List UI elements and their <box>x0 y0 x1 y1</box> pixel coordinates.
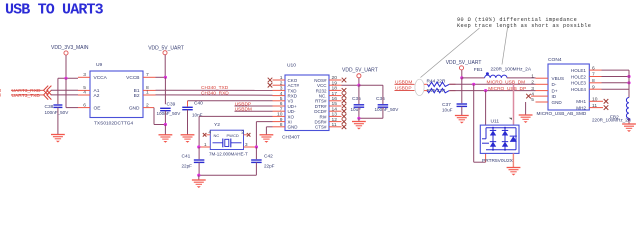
capacitor C36 <box>375 85 400 118</box>
svg-text:10: 10 <box>592 97 598 103</box>
svg-text:Keep trace length as short as: Keep trace length as short as possible <box>457 23 591 29</box>
svg-text:2: 2 <box>146 102 149 108</box>
svg-text:MICRO_USB_DP: MICRO_USB_DP <box>488 86 526 92</box>
U9 pin 4 <box>78 90 90 96</box>
svg-text:Y2: Y2 <box>214 122 220 128</box>
svg-text:3: 3 <box>245 142 248 147</box>
svg-text:C40: C40 <box>194 100 203 106</box>
ground crystal <box>192 175 206 188</box>
svg-text:22pF: 22pF <box>264 163 275 168</box>
wire C37 branch <box>461 78 463 103</box>
svg-text:7: 7 <box>146 72 149 78</box>
svg-text:5: 5 <box>531 97 534 103</box>
connector CON4 box <box>537 57 590 116</box>
svg-text:19: 19 <box>332 80 338 86</box>
svg-text:NC: NC <box>214 133 220 138</box>
wire USBDP <box>235 101 273 107</box>
crystal Y2 box <box>209 122 248 156</box>
U9 pin 7 <box>143 72 156 78</box>
svg-text:7: 7 <box>592 72 595 78</box>
CON4 pin 4 ID <box>526 91 548 98</box>
svg-text:10uF: 10uF <box>442 107 453 112</box>
op-amp U10 box <box>282 63 329 141</box>
svg-text:HOLE4: HOLE4 <box>571 87 587 92</box>
ground U10 <box>260 135 274 143</box>
wire A2 <box>51 94 78 96</box>
ground U11 <box>507 168 521 176</box>
sheet entry numbers <box>0 88 2 98</box>
svg-text:7M-12.000MAHE-T: 7M-12.000MAHE-T <box>209 151 248 156</box>
U9 pin 5 <box>78 85 90 91</box>
note text line 2 <box>457 23 591 29</box>
capacitor C39 <box>157 101 182 124</box>
title text <box>5 2 104 19</box>
svg-text:3: 3 <box>280 86 283 92</box>
svg-text:MH2: MH2 <box>576 105 586 110</box>
svg-text:7: 7 <box>280 106 283 112</box>
svg-text:100nF_50V: 100nF_50V <box>375 107 400 112</box>
svg-text:UART3_TXD: UART3_TXD <box>12 93 41 99</box>
U10 pin 19 VCC <box>329 80 342 86</box>
svg-text:GND: GND <box>129 106 140 112</box>
U11 internals <box>482 127 517 151</box>
wire CON4 gnd <box>525 102 527 115</box>
CON4 pin 7 HOLE2 <box>589 72 630 78</box>
U10 pin 16 RTS# <box>329 96 346 103</box>
svg-text:B2: B2 <box>134 93 140 99</box>
ground C39 <box>159 125 173 143</box>
svg-text:3: 3 <box>531 86 534 92</box>
wire U10 gnd <box>266 127 272 135</box>
CON4 pin 3 D+ <box>531 86 548 92</box>
svg-text:100nF_50V: 100nF_50V <box>45 110 70 115</box>
svg-text:16: 16 <box>332 96 338 102</box>
svg-text:C42: C42 <box>264 154 273 160</box>
svg-text:10uF: 10uF <box>351 107 362 112</box>
power VDD_3V3_MAIN <box>51 45 89 78</box>
wire CH340_TXD <box>156 85 273 91</box>
svg-text:11: 11 <box>592 103 597 109</box>
port UART3_RXD <box>11 86 51 95</box>
capacitor C38 <box>45 104 70 135</box>
svg-text:6: 6 <box>280 101 283 107</box>
svg-text:17: 17 <box>332 91 338 97</box>
svg-text:U9: U9 <box>96 62 103 68</box>
U10 pin 8 GND <box>273 122 286 128</box>
svg-text:U10: U10 <box>287 63 296 69</box>
wire 5V row <box>462 77 485 79</box>
svg-text:1: 1 <box>146 90 149 96</box>
svg-text:14: 14 <box>332 106 338 112</box>
U10 pin 10 XO <box>273 112 286 118</box>
U10 pin 13 RI# <box>329 112 346 119</box>
CON4 pin 6 HOLE1 <box>589 65 629 71</box>
U10 pin 1 CKO <box>268 75 285 82</box>
Y2 pin 1 <box>197 142 210 148</box>
U10 pin 4 RXD <box>273 91 286 97</box>
wire VCCB <box>156 76 167 79</box>
power VDD_5V_UART mid <box>342 68 378 86</box>
ground C38 <box>51 135 65 143</box>
U11 vcc arrow <box>509 118 512 120</box>
wire U11 vcc <box>513 84 515 126</box>
U10 pin 17 NC. <box>329 91 346 98</box>
svg-text:4: 4 <box>208 129 211 134</box>
ground C37 <box>455 116 469 124</box>
svg-text:20: 20 <box>332 75 338 81</box>
capacitor C42 <box>251 147 275 175</box>
svg-text:C41: C41 <box>182 154 191 160</box>
wire DP <box>449 89 535 92</box>
power VDD_5V_UART right <box>446 60 482 79</box>
U10 pin 9 XI <box>273 117 286 123</box>
op-amp U9 box <box>90 62 143 127</box>
svg-text:5: 5 <box>280 96 283 102</box>
svg-text:MH1: MH1 <box>576 99 586 104</box>
svg-text:HOLE2: HOLE2 <box>571 74 587 79</box>
svg-text:13: 13 <box>332 112 338 118</box>
svg-text:PWCD: PWCD <box>227 133 239 138</box>
svg-text:2: 2 <box>241 129 244 134</box>
label MICRO_USB_DP <box>488 86 526 92</box>
CON4 pin 9 HOLE4 <box>589 84 629 90</box>
diode-array U11 box <box>480 118 519 164</box>
port USBDP right <box>395 86 415 92</box>
svg-text:3: 3 <box>83 72 86 78</box>
svg-text:4: 4 <box>531 91 534 97</box>
label MICRO_USB_DM <box>487 79 526 85</box>
U10 pin 11 CTS# <box>329 122 346 129</box>
svg-text:OE: OE <box>94 106 101 112</box>
svg-text:220R_100MHz_2A: 220R_100MHz_2A <box>491 67 532 73</box>
resistor R45 <box>424 88 456 94</box>
CON4 pin 11 MH2 <box>589 103 608 110</box>
svg-text:11: 11 <box>332 122 337 128</box>
CON4 pin names <box>552 68 587 111</box>
capacitor C41 <box>182 147 205 175</box>
svg-text:D+: D+ <box>552 88 558 93</box>
svg-text:6: 6 <box>83 102 86 108</box>
svg-text:VDD_5V_UART: VDD_5V_UART <box>342 68 378 74</box>
Y2 pin 3 <box>244 142 259 148</box>
svg-text:U11: U11 <box>491 118 500 124</box>
wire U9 GND <box>154 108 167 127</box>
svg-text:ID: ID <box>552 94 557 99</box>
capacitor C40 <box>182 100 203 134</box>
ground FB2 <box>622 124 636 132</box>
svg-text:A2: A2 <box>94 93 100 99</box>
svg-text:VDD_5V_UART: VDD_5V_UART <box>148 45 184 51</box>
CON4 pin 8 HOLE3 <box>589 78 630 84</box>
Y2 pin 2 <box>241 129 250 136</box>
ground CON4 <box>519 115 533 123</box>
capacitor C37 <box>442 102 467 115</box>
U9 pin 1 <box>143 90 156 96</box>
svg-text:GND: GND <box>552 100 563 105</box>
wire CH340_RXD <box>156 90 273 96</box>
ground C40 <box>181 135 195 143</box>
wire OE pullup vertical <box>66 78 78 107</box>
svg-text:MICRO_USB_DM: MICRO_USB_DM <box>487 79 526 85</box>
svg-text:FB1: FB1 <box>474 67 483 73</box>
port ellipse <box>415 79 424 95</box>
wire DP to U11 <box>485 91 487 126</box>
svg-text:8: 8 <box>280 122 283 128</box>
wire XI <box>256 122 272 147</box>
svg-text:TXS0102DCTTG4: TXS0102DCTTG4 <box>94 121 134 127</box>
svg-text:6: 6 <box>592 65 595 71</box>
svg-text:1: 1 <box>531 73 534 79</box>
Y2 pin 4 <box>203 129 212 136</box>
svg-text:C35: C35 <box>352 96 361 102</box>
svg-text:10: 10 <box>277 112 283 118</box>
wire VCC19 <box>342 84 383 87</box>
Y2 internals <box>213 133 242 148</box>
svg-text:9: 9 <box>592 84 595 90</box>
svg-text:VCCB: VCCB <box>126 75 139 81</box>
svg-text:VDD_5V_UART: VDD_5V_UART <box>446 60 482 66</box>
wire DM <box>449 83 535 86</box>
note text line 1 <box>457 17 577 23</box>
svg-text:PRTR5V0U2X: PRTR5V0U2X <box>482 158 514 164</box>
svg-text:CON4: CON4 <box>548 57 562 63</box>
svg-text:GND: GND <box>288 125 299 130</box>
svg-text:1: 1 <box>204 142 207 147</box>
resistor R44 <box>424 78 456 86</box>
U10 pin 3 TXD <box>273 86 286 92</box>
ferrite bead FB1 <box>474 67 532 78</box>
svg-text:VBUS: VBUS <box>552 76 565 81</box>
svg-text:CH340T: CH340T <box>282 135 300 141</box>
port USBDM right <box>395 79 415 85</box>
CON4 pin 10 MH1 <box>589 97 608 104</box>
note callout line B <box>502 28 508 65</box>
CON4 pin 1 VBUS <box>531 73 548 79</box>
svg-text:HOLE3: HOLE3 <box>571 81 587 86</box>
node U9 VCCA junction <box>58 77 78 80</box>
svg-text:VCCA: VCCA <box>94 75 108 81</box>
svg-text:4: 4 <box>83 90 86 96</box>
wire XO <box>199 116 272 147</box>
wire to C38 <box>57 78 59 104</box>
svg-text:3: 3 <box>0 93 2 98</box>
svg-text:9: 9 <box>280 117 283 123</box>
U10 pin 20 NOS# <box>329 75 346 82</box>
U11 gnd pin <box>512 153 514 167</box>
svg-text:D-: D- <box>552 82 557 87</box>
svg-text:VDD_3V3_MAIN: VDD_3V3_MAIN <box>51 45 89 51</box>
svg-text:CTS#: CTS# <box>315 125 327 130</box>
U10 pin 18 R232 <box>329 86 346 93</box>
svg-text:1: 1 <box>280 75 283 81</box>
svg-text:USB TO UART3: USB TO UART3 <box>5 2 104 19</box>
CON4 pin 5 GND <box>531 97 548 103</box>
U10 pin 2 ACT# <box>268 80 285 87</box>
U9 pin 8 <box>143 85 156 91</box>
power VDD_5V_UART left <box>148 45 184 77</box>
wire A1 <box>51 89 78 91</box>
wire V3 <box>188 101 273 107</box>
svg-text:18: 18 <box>332 86 338 92</box>
svg-text:HOLE1: HOLE1 <box>571 68 587 73</box>
U10 pin names <box>288 78 328 130</box>
U10 pin 6 UD+ <box>273 101 286 107</box>
svg-text:220R_100MHz_2A: 220R_100MHz_2A <box>592 118 632 123</box>
wire 5V to C39 <box>164 77 166 104</box>
svg-text:2: 2 <box>531 80 534 86</box>
svg-text:C39: C39 <box>167 101 176 107</box>
svg-text:22pF: 22pF <box>182 163 193 168</box>
svg-text:C36: C36 <box>376 96 385 102</box>
U10 pin 12 DSR# <box>329 117 346 124</box>
ferrite bead FB2 <box>592 98 632 124</box>
wire DM to U11 <box>474 84 486 162</box>
svg-text:8: 8 <box>592 78 595 84</box>
CON4 pin 2 D- <box>531 80 548 86</box>
wire holes <box>628 70 630 97</box>
U10 pin 15 DTR# <box>329 101 346 108</box>
wire 5V to CON4 <box>507 77 536 79</box>
U9 pin 2 <box>143 102 154 108</box>
U9 pin names <box>94 75 141 111</box>
capacitor C35 <box>351 85 365 118</box>
port UART3_TXD <box>11 90 51 99</box>
svg-text:15: 15 <box>332 101 338 107</box>
U9 pin 3 <box>78 72 90 78</box>
U10 pin 7 UD- <box>273 106 286 112</box>
note callout line A <box>421 28 480 78</box>
svg-text:2: 2 <box>280 80 283 86</box>
wire C35 C36 gnd <box>357 117 383 121</box>
svg-text:4: 4 <box>280 91 283 97</box>
ground C35 <box>352 122 366 130</box>
wire crystal gnd rail <box>197 174 256 177</box>
svg-text:12: 12 <box>332 117 338 123</box>
U10 pin 5 V3 <box>273 96 286 102</box>
svg-text:MICRO_USB_AB_SMD: MICRO_USB_AB_SMD <box>537 111 587 116</box>
wire USBDM <box>235 107 273 113</box>
svg-text:100nF_50V: 100nF_50V <box>157 111 182 116</box>
U9 pin 6 <box>78 102 90 108</box>
U10 pin 14 DCD# <box>329 106 346 113</box>
